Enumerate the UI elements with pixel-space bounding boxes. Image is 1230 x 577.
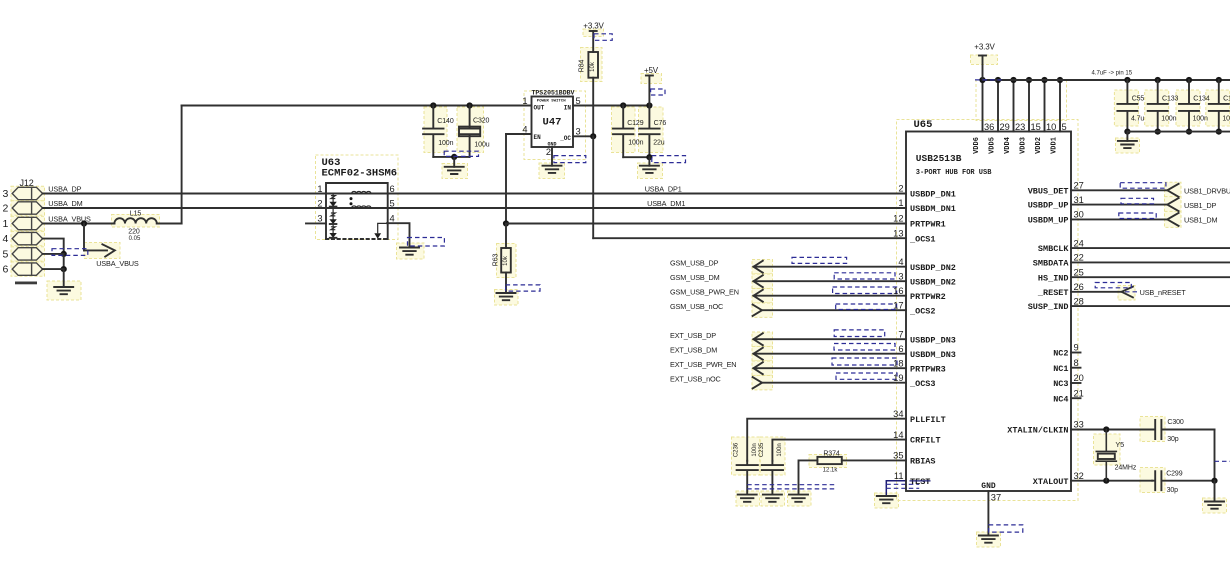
svg-text:CRFILT: CRFILT [910,436,941,446]
wire EN vertical down [505,134,507,224]
svg-text:9: 9 [1074,343,1079,353]
svg-text:27: 27 [1074,181,1084,191]
svg-text:J12: J12 [20,178,34,188]
svg-text:100n: 100n [777,443,783,456]
svg-text:1: 1 [317,184,322,194]
capacitor C320 [459,106,479,157]
junction C55 bottom [1124,129,1130,135]
highlight C133 [1145,90,1169,126]
junction VDD rail pin 36 [979,77,985,83]
svg-text:100n: 100n [1222,115,1230,122]
blue net annotation at C76 ground [652,156,686,163]
highlight +5V symbol [641,74,662,84]
wire USBA_DP1 U63.6 to U65.2 [387,193,906,195]
junction J12.5 [61,251,67,257]
junction XTALIN Y5 [1103,426,1109,432]
ground under R374 [789,495,808,502]
svg-text:18: 18 [893,358,903,368]
highlight EXT_USB_PWR_EN flag arrow [752,361,773,375]
svg-text:36: 36 [984,122,994,132]
blue net annotation USB1_DP [1121,198,1154,204]
svg-text:37: 37 [991,493,1001,503]
svg-text:100n: 100n [1193,115,1208,122]
svg-text:30: 30 [1074,210,1084,220]
svg-text:22u: 22u [653,140,665,147]
junction C134 top [1186,77,1192,83]
svg-text:EXT_USB_DM: EXT_USB_DM [670,345,717,354]
svg-text:_OCS1: _OCS1 [909,234,936,244]
junction _OC R84 [590,133,596,139]
svg-text:C300: C300 [1167,419,1184,426]
wire EXT_USB_DM to U65 [754,353,907,355]
capacitor C55 [1117,80,1137,132]
wire J12.6 stub down to ground [43,269,64,287]
svg-text:_RESET: _RESET [1037,288,1069,298]
highlight C134 [1176,90,1200,126]
svg-text:USB_nRESET: USB_nRESET [1140,288,1187,297]
svg-text:L15: L15 [130,211,142,218]
capacitor C129 [613,106,633,158]
power switch U47 body box [532,97,574,148]
ground under C140 C320 [445,167,464,174]
net flag arrow GSM_USB_nOC [753,305,762,316]
junction USBA_VBUS at flag tap [81,220,87,226]
highlight R84 [581,48,603,82]
svg-text:PRTPWR1: PRTPWR1 [910,220,946,230]
U63 internal ESD diode rail [332,194,334,240]
junction C135 bottom [1216,129,1222,135]
svg-text:19: 19 [893,373,903,383]
U63 body box dotted bottom edge [326,238,388,240]
highlight ground under crystal rail [1203,498,1227,513]
svg-text:26: 26 [1074,282,1084,292]
svg-text:16: 16 [893,286,903,296]
svg-text:TPS2051BDBV: TPS2051BDBV [532,89,575,96]
highlight EXT_USB_DP flag arrow [752,332,773,346]
blue net annotation USB_nRESET [1095,283,1131,288]
J12 pin 3 hexagon symbol [12,187,42,199]
svg-text:1: 1 [522,96,527,106]
resistor R84 [588,52,598,78]
svg-text:NC2: NC2 [1053,349,1068,359]
highlight C76 [639,107,664,153]
J12 pin 4 hexagon symbol [12,232,42,244]
svg-text:ECMF02-3HSM6: ECMF02-3HSM6 [322,168,398,180]
junction +5V / C76 top [646,102,652,108]
wire C129/C76 bottoms join [623,156,649,158]
svg-text:17: 17 [893,300,903,310]
wire crystal rail ground stub [1214,481,1216,502]
svg-text:PRTPWR3: PRTPWR3 [910,364,946,374]
U65 NC3 pin 20 stub [1071,382,1081,384]
highlight L15 [112,215,160,228]
ground under R63 [497,293,516,300]
junction C133 bottom [1155,129,1161,135]
net flag arrow EXT_USB_PWR_EN [754,362,763,374]
svg-text:EXT_USB_PWR_EN: EXT_USB_PWR_EN [670,360,736,369]
svg-text:USBA_DP: USBA_DP [48,184,81,193]
wire PRTPWR1 to U65.12 [506,223,906,225]
net flag arrow USB_nRESET [1122,287,1133,298]
svg-text:10k: 10k [503,255,509,266]
svg-text:4: 4 [898,257,903,267]
highlight ground under U65 pin37 [977,532,1001,547]
U63 body box [326,183,388,239]
wire EXT_USB_DP to U65 [754,338,907,340]
svg-text:2: 2 [898,184,903,194]
svg-text:USBDM_UP: USBDM_UP [1028,216,1069,226]
svg-text:R63: R63 [493,254,500,267]
blue net annotation GSM_USB_PWR_EN [833,287,897,294]
net flag arrow GSM_USB_DP [754,261,763,273]
highlight J12 pin 3 [11,186,45,200]
net flag arrow EXT_USB_nOC [753,377,762,388]
svg-text:1: 1 [3,218,9,230]
highlight EXT_USB_nOC flag arrow [752,376,773,390]
U65 VDD pin 15 wire to 3.3V rail [1028,80,1030,132]
blue net annotation USB1_DM [1119,213,1156,219]
net flag arrow USB1_DRVBUS [1167,184,1178,197]
U63 internal wire pair [326,194,388,209]
wire HS_IND U65.25 to edge [1071,276,1230,278]
svg-text:NC3: NC3 [1053,379,1068,389]
U65 TEST pin name strikethrough [910,480,931,482]
wire junction down to R63 [505,224,507,249]
U65 VDD pin 10 wire to 3.3V rail [1044,80,1046,132]
svg-text:35: 35 [893,451,903,461]
svg-text:GSM_USB_PWR_EN: GSM_USB_PWR_EN [670,287,739,296]
net flag arrow USB1_DM [1167,213,1178,226]
svg-text:3: 3 [576,127,581,137]
svg-text:GSM_USB_nOC: GSM_USB_nOC [670,302,723,311]
highlight U65 VDD pins group [976,80,1067,121]
wire XTALOUT U65.32 to crystal net [1071,480,1152,482]
svg-text:USBA_DM1: USBA_DM1 [647,199,685,208]
svg-text:13: 13 [893,228,903,238]
svg-text:Y5: Y5 [1115,440,1124,449]
highlight U65 bounding box [897,120,1079,501]
svg-text:USBDM_DN3: USBDM_DN3 [910,350,956,360]
highlight +3.3V symbol at U65 [971,55,998,65]
highlight C300 [1140,417,1165,442]
U63 coil polarity dots [350,197,353,200]
blue net annotation EXT_USB_DM [834,344,895,351]
svg-text:USBDP_DN1: USBDP_DN1 [910,190,956,200]
svg-text:6: 6 [898,344,903,354]
svg-text:22: 22 [1074,253,1084,263]
svg-text:4.7u: 4.7u [1131,115,1144,122]
highlight R63 [497,244,517,278]
svg-text:3-PORT HUB FOR USB: 3-PORT HUB FOR USB [916,169,992,177]
power symbol +3.3V at R84 [583,22,604,32]
svg-text:C135: C135 [1223,95,1230,102]
svg-text:3: 3 [898,271,903,281]
svg-text:NC4: NC4 [1053,394,1068,404]
highlight J12 pin 2 [11,201,45,215]
wire U65 to USB1_DP flag [1071,204,1167,206]
resistor R374 [817,457,841,464]
highlight C135 [1206,90,1230,126]
highlight C235 [760,437,785,475]
svg-text:11: 11 [894,471,904,481]
svg-text:100n: 100n [752,443,758,456]
ground under C129 C76 [640,166,659,173]
svg-text:HS_IND: HS_IND [1038,273,1069,283]
C320 polarized body outline [459,127,480,137]
highlight C129 [612,107,636,153]
wire switched-5V rail riser to U47.OUT [182,105,532,107]
junction EN PRTPWR1 R63 [503,220,509,226]
inductor L15 coil [114,218,156,223]
highlight USB1_DM flag arrow [1165,211,1182,227]
blue net annotation EXT_USB_PWR_EN [832,358,897,365]
svg-text:14: 14 [893,430,903,440]
wire USBA_DM1 U63.5 to U65.1 [387,207,906,209]
svg-text:+5V: +5V [644,66,659,75]
capacitor C140 [423,106,443,157]
U63 pin 3 stub [306,222,326,224]
svg-text:C320: C320 [473,118,490,125]
svg-text:VDD5: VDD5 [989,137,997,154]
junction C55 top [1124,77,1130,83]
junction VDD rail pin 29 [995,77,1001,83]
svg-text:VDD6: VDD6 [973,137,981,154]
svg-text:EN: EN [534,134,542,141]
svg-text:USB1_DM: USB1_DM [1184,216,1217,225]
highlight C299 [1140,468,1165,493]
highlight USB1_DP flag arrow [1165,197,1182,213]
svg-text:3: 3 [3,188,9,200]
capacitor C300 [1152,420,1214,439]
wire GSM_USB_PWR_EN to U65 [754,295,907,297]
net flag arrow USB1_DP [1167,198,1178,211]
svg-text:100n: 100n [628,140,643,147]
wire +3.3V to R84 [592,31,594,52]
U65 NC4 pin 21 stub [1071,397,1081,399]
capacitor C134 [1179,80,1199,132]
blue net annotation at C140 ground [444,151,478,156]
svg-text:GSM_USB_DP: GSM_USB_DP [670,258,719,267]
highlight ground under C55 [1116,138,1140,153]
svg-text:5: 5 [576,96,581,106]
ground at U63 pin 4 [400,248,419,255]
wire U65 to USB1_DRVBUS flag [1071,189,1167,191]
highlight J12 pin 5 [11,247,45,261]
wire crystal caps right rail [1214,430,1216,481]
U63 internal common-mode choke coil B [352,206,371,208]
wire U47.EN left [506,133,532,135]
svg-text:+3.3V: +3.3V [583,22,604,31]
svg-text:100u: 100u [474,142,489,149]
svg-text:USBA_DM: USBA_DM [48,199,82,208]
blue net annotation at U63 pin4 ground [408,238,445,247]
svg-text:VBUS_DET: VBUS_DET [1028,186,1069,196]
ground under crystal rail [1205,502,1224,509]
svg-text:12.1k: 12.1k [823,468,839,474]
resistor R63 [501,248,511,273]
junction C134 bottom [1186,129,1192,135]
highlight J12 pin 4 [11,231,45,245]
wire J12.5 stub [43,254,64,269]
highlight J12 ground [47,281,81,300]
svg-text:6: 6 [3,264,9,276]
wire +3.3V VDD rail [983,79,1230,81]
highlight J12 pin 6 [11,262,45,276]
ground under J12 [54,287,73,294]
svg-text:10: 10 [1046,122,1056,132]
svg-text:USB1_DP: USB1_DP [1184,201,1216,210]
svg-text:5: 5 [3,249,9,261]
IC U65 USB2513B body box [906,132,1071,492]
U63 internal ESD diode pair 3 [331,227,335,230]
svg-text:GSM_USB_DM: GSM_USB_DM [670,273,720,282]
capacitor C135 [1209,80,1229,132]
svg-text:4: 4 [3,233,9,245]
svg-text:20: 20 [1074,373,1084,383]
highlight C320 [457,107,484,153]
svg-text:USBDP_DN2: USBDP_DN2 [910,263,956,273]
U65 VDD pin 5 wire to 3.3V rail [1059,80,1061,132]
wire USBA_VBUS riser up to 5V rail [181,106,183,224]
svg-text:25: 25 [1074,267,1084,277]
highlight C140 [424,107,447,153]
capacitor C236 [737,461,758,495]
svg-text:8: 8 [1074,358,1079,368]
highlight crystal Y5 [1094,434,1121,465]
junction XTALOUT Y5 [1103,478,1109,484]
svg-text:R374: R374 [823,450,840,457]
highlight C236 [732,437,760,475]
wire U47._OC to junction [573,135,593,137]
blue net annotation at TEST [886,484,919,488]
svg-text:1: 1 [898,198,903,208]
wire U47 GND pin 2 stub [551,147,553,166]
svg-text:C235: C235 [759,442,765,457]
svg-text:U65: U65 [914,119,933,131]
svg-text:2: 2 [317,198,322,208]
svg-text:100n: 100n [438,140,453,147]
wire _OCS1 vertical [592,136,594,238]
wire USBA_VBUS L15 to riser [157,223,182,225]
highlight GSM_USB_DP flag arrow [752,260,773,274]
wire cap bank bottom rail [1127,131,1230,133]
wire SUSP_IND U65.28 to edge [1071,305,1230,307]
blue net annotation at R63 ground [506,285,540,291]
blue dashes at USB_nRESET [1125,291,1140,293]
svg-text:C55: C55 [1132,95,1145,102]
blue net annotation USB1_DRVBUS [1120,183,1166,189]
svg-text:33: 33 [1074,420,1084,430]
wire CRFILT U65.14 to C235 [772,440,906,461]
U65 VDD pin 23 wire to 3.3V rail [1013,80,1015,132]
svg-text:4: 4 [390,214,395,224]
highlight +3.3V symbol at R84 [583,29,604,37]
ground under U65 pin 37 [979,536,998,543]
highlight EXT_USB_DM flag arrow [752,347,773,361]
svg-text:RBIAS: RBIAS [910,457,936,467]
svg-text:USBDP_DN3: USBDP_DN3 [910,335,956,345]
wire C140/C320 ground stub [453,157,455,167]
wire U65 GND pin 37 to ground [987,491,989,536]
svg-text:24MHz: 24MHz [1115,465,1137,472]
wire EXT_USB_PWR_EN to U65 [754,367,907,369]
svg-text:XTALOUT: XTALOUT [1033,477,1069,487]
highlight ground under C235 [761,491,785,506]
highlight GSM_USB_PWR_EN flag arrow [752,289,773,303]
U65 VDD pin 29 wire to 3.3V rail [997,80,999,132]
highlight C55 [1114,90,1138,126]
svg-text:TEST: TEST [910,477,930,487]
svg-text:4.7uF -> pin 15: 4.7uF -> pin 15 [1092,71,1133,77]
capacitor C76 [639,106,659,158]
wire USBA_VBUS tap down to flag [83,224,85,251]
highlight USBA_VBUS flag [84,243,120,259]
highlight R374 [809,455,847,468]
blue net annotation GSM_USB_DM [834,273,895,279]
svg-text:31: 31 [1074,195,1084,205]
svg-text:SMBDATA: SMBDATA [1033,259,1070,269]
highlight ground under U47 [539,163,565,179]
svg-text:R84: R84 [579,60,586,73]
net flag arrow EXT_USB_DM [754,348,763,360]
ground under C236 [738,495,757,502]
svg-text:VDD2: VDD2 [1035,137,1043,154]
svg-text:VDD3: VDD3 [1020,137,1028,154]
svg-text:12: 12 [893,214,903,224]
highlight ground at TEST pin [875,493,899,508]
svg-text:USB2513B: USB2513B [916,153,962,164]
svg-text:USBDM_DN2: USBDM_DN2 [910,277,956,287]
wire J12.4 down to J12.5 [43,239,64,254]
net flag arrow EXT_USB_DP [754,333,763,345]
net flag arrow GSM_USB_PWR_EN [754,290,763,302]
U63 internal ESD diode pair 1 [331,196,335,199]
blue net annotation at U47 ground [554,156,586,163]
svg-text:EXT_USB_DP: EXT_USB_DP [670,331,716,340]
svg-text:USBDM_DN1: USBDM_DN1 [910,204,956,214]
highlight U63 bounding box [316,155,399,240]
wire GSM_USB_nOC to U65 [762,309,906,311]
U65 NC1 pin 8 stub [1071,367,1081,369]
wire U65 to USB1_DM flag [1071,218,1167,220]
svg-text:7: 7 [898,329,903,339]
wire C140/C320 bottoms join [433,156,469,158]
capacitor C133 [1148,80,1168,132]
svg-text:USB1_DRVBUS: USB1_DRVBUS [1184,187,1230,196]
J12 part number text (tiny) [15,282,37,285]
crystal Y5 [1096,430,1116,481]
highlight ground under C129 C76 [638,163,663,179]
junction C140 C320 ground [451,154,457,160]
svg-text:VDD1: VDD1 [1051,137,1059,154]
J12 pin 1 hexagon symbol [12,217,42,229]
wire USBA_VBUS J12.1 to L15 [43,223,115,225]
svg-text:100n: 100n [1161,115,1176,122]
wire R63 to ground [505,273,507,294]
wire PLLFILT U65.34 to C236 [747,419,906,461]
wire SMBCLK U65.24 to edge [1071,247,1230,249]
wire RBIAS U65.35 to R374 [842,459,906,461]
svg-text:C236: C236 [734,442,740,457]
svg-text:3: 3 [317,214,322,224]
svg-text:C133: C133 [1162,95,1179,102]
svg-text:0.05: 0.05 [129,236,141,242]
capacitor C235 [762,461,783,495]
blue net annotation on VDD rail [975,79,1002,81]
ground under C235 [763,495,782,502]
svg-text:29: 29 [1000,122,1010,132]
svg-text:_OCS2: _OCS2 [909,306,936,316]
